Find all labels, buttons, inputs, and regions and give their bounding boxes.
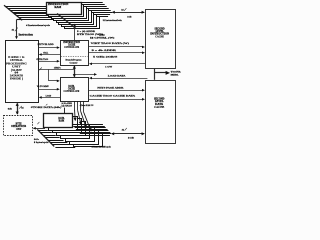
bus link to L2 caches: [75, 74, 96, 76]
svg-text:RAM: RAM: [59, 119, 65, 123]
bus stall ICC to CPU: [40, 54, 60, 56]
instruction cache controller box: [61, 41, 89, 66]
svg-text:TO/FR: TO/FR: [171, 71, 181, 73]
branch wire to DCC: [48, 69, 50, 81]
wire fan: instruction RAM to CPU: [4, 5, 22, 20]
svg-text:CNTRL TAGS: CNTRL TAGS: [36, 58, 49, 61]
svg-text:64-b: 64-b: [34, 139, 40, 141]
wire fan: instruction RAM to L2 bus: [81, 2, 103, 4]
wire DCC tags to data RAM: [64, 108, 66, 114]
svg-text:MEM.: MEM.: [171, 75, 180, 77]
svg-text:CACHE: CACHE: [155, 35, 164, 38]
svg-text:4 Instructions/cycle: 4 Instructions/cycle: [26, 24, 50, 27]
svg-text:CACHE TAGS CACHE DATA: CACHE TAGS CACHE DATA: [90, 95, 136, 98]
svg-text:4 Data-RAM CS: 4 Data-RAM CS: [80, 104, 94, 107]
bus width tick 32 data: [125, 128, 127, 131]
svg-text:CONTROLLER: CONTROLLER: [64, 46, 79, 49]
svg-text:I$ CNTRL (W): I$ CNTRL (W): [90, 36, 115, 39]
bus DCC to L2D data: [88, 99, 143, 101]
L2 link vertical: [154, 68, 156, 79]
bus byteops to data RAM: [34, 128, 45, 130]
svg-text:CONTROLLER: CONTROLLER: [64, 90, 80, 93]
to main memory arrow: [155, 72, 167, 74]
svg-text:STALL: STALL: [43, 51, 48, 54]
bus fetch address CPU to ICC: [39, 47, 59, 49]
svg-text:STORE DATA (64b): STORE DATA (64b): [31, 106, 62, 109]
svg-text:LOAD DATA: LOAD DATA: [108, 74, 126, 77]
bus width tick 32: [124, 8, 126, 11]
svg-text:FETCH ADD: FETCH ADD: [38, 43, 54, 46]
svg-text:INSIDE ): INSIDE ): [10, 77, 23, 80]
instruction bus to CPU: [16, 20, 18, 38]
svg-text:VA TO MMU: VA TO MMU: [37, 85, 49, 88]
svg-text:(4) TAGS: (4) TAGS: [62, 105, 73, 108]
bus width tick 64: [19, 106, 22, 109]
wire fan: data RAM to byte ops: [37, 129, 54, 146]
svg-text:4 Data RAM/cycle: 4 Data RAM/cycle: [92, 146, 112, 149]
data cache controller box: [61, 78, 89, 102]
svg-text:CHIP: CHIP: [16, 128, 22, 131]
bus load DCC to CPU: [40, 97, 60, 99]
CPU-byteops double arrow: [17, 103, 19, 114]
wire fan: data RAM to L2 bus: [72, 124, 103, 126]
svg-text:VIRT TAGS DATA (W): VIRT TAGS DATA (W): [91, 42, 130, 45]
svg-text:PHYS PAGE ADDR: PHYS PAGE ADDR: [97, 87, 123, 90]
svg-text:Instruction: Instruction: [19, 33, 34, 36]
svg-text:RAM: RAM: [54, 5, 61, 9]
svg-text:32 Instructions/fetch: 32 Instructions/fetch: [103, 19, 123, 22]
svg-text:CACHE: CACHE: [154, 106, 164, 109]
bus ICC to L2I tags: [88, 46, 143, 48]
svg-text:8 bytes/cycle: 8 bytes/cycle: [34, 142, 49, 144]
bus L2I to ICC: [92, 63, 146, 65]
bus DCC to L2D addr: [88, 90, 143, 92]
svg-text:9 + 4b ADDR: 9 + 4b ADDR: [92, 49, 117, 52]
data RAM chip stack (8 chips): [74, 133, 103, 147]
instruction RAM chip stack (8 chips): [65, 17, 100, 29]
svg-text:Counter: Counter: [70, 62, 79, 65]
divider branch/program counter: [61, 55, 88, 57]
bus L2D to DCC: [92, 78, 147, 80]
byte operations chip box: [4, 116, 33, 136]
svg-text:1GB: 1GB: [128, 136, 135, 139]
bus branch CPU to ICC: [39, 61, 59, 63]
link ICC-DCC double arrow: [74, 66, 76, 77]
svg-text:64b: 64b: [8, 108, 13, 111]
svg-text:1GB: 1GB: [127, 16, 132, 19]
bus ICC to L2I addr: [88, 52, 143, 54]
svg-text:(4): (4): [99, 33, 105, 36]
bus address CPU to DCC: [39, 89, 59, 91]
bus: data RAM - L2 data cache: [112, 133, 144, 135]
fetch address bus ICC to RAM stack: [57, 14, 76, 29]
CPU box F-RISC/G: [6, 41, 39, 103]
bus width tick 32 instruction: [15, 28, 18, 32]
second level data cache box: [146, 81, 176, 144]
bus CPU to cache link: [39, 69, 74, 71]
second level instruction cache box: [146, 10, 176, 69]
svg-text:5 GHz 2GB/S: 5 GHz 2GB/S: [93, 55, 119, 58]
address fan DCC to data RAM: [74, 101, 76, 109]
bus: instruction RAM - L2 instruction cache: [113, 12, 145, 14]
svg-text:1 GW: 1 GW: [105, 66, 113, 69]
svg-text:LOAD: LOAD: [46, 94, 52, 97]
